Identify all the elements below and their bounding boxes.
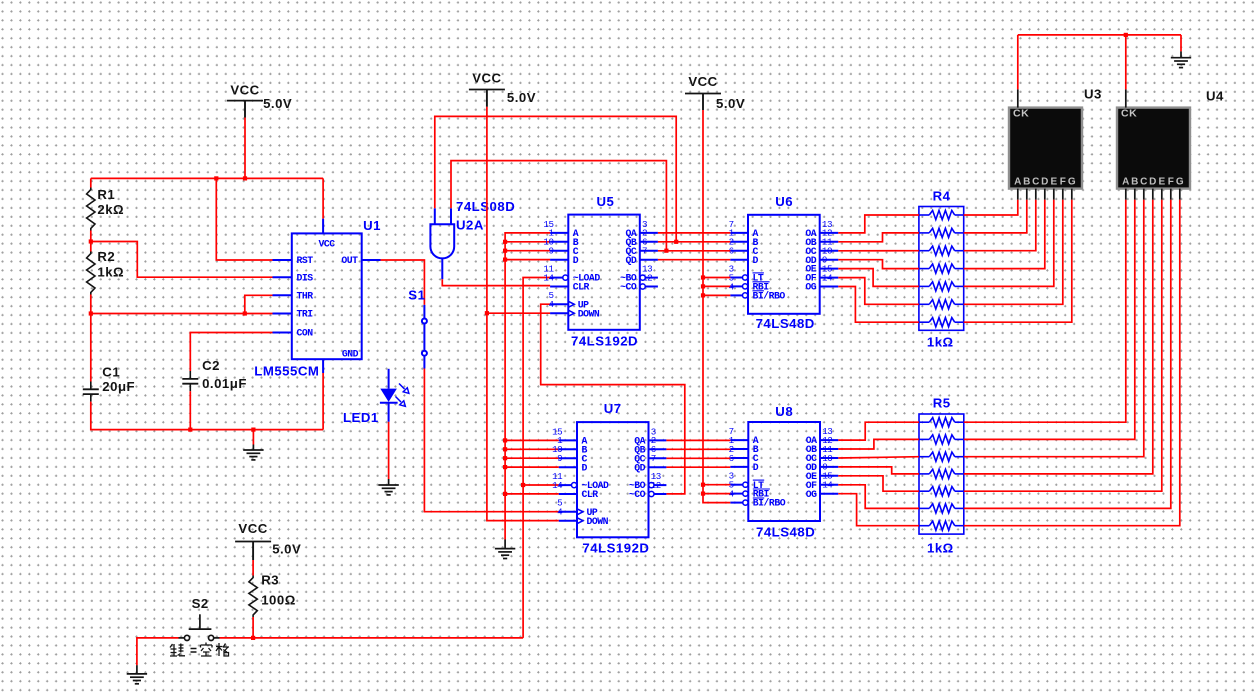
svg-text:CON: CON bbox=[297, 328, 314, 339]
wire gnd rail to U7 B bbox=[505, 448, 559, 450]
op-amp U1 LM555CM timer body bbox=[292, 233, 362, 359]
svg-text:VCC: VCC bbox=[319, 239, 336, 250]
wire U6 OF to R4 row6 bbox=[838, 278, 919, 305]
node gnd-rail U7 B bbox=[503, 447, 507, 451]
node R1/R2 junction bbox=[89, 239, 93, 243]
svg-text:14: 14 bbox=[822, 480, 833, 491]
svg-text:0.01μF: 0.01μF bbox=[202, 376, 247, 391]
wire R4 row1 to U3 A bbox=[964, 200, 1018, 215]
wire S1 to U7 UP bbox=[424, 369, 558, 512]
wire R5 row6 to U4 F bbox=[964, 200, 1171, 509]
wire R5 row5 to U4 E bbox=[964, 200, 1162, 491]
wire VCC1 stem to top rail bbox=[244, 118, 246, 179]
svg-text:C: C bbox=[1140, 177, 1147, 188]
svg-text:OG: OG bbox=[805, 282, 816, 293]
svg-text:VCC: VCC bbox=[238, 521, 267, 536]
svg-text:7: 7 bbox=[651, 453, 656, 464]
svg-text:5.0V: 5.0V bbox=[716, 96, 745, 111]
svg-text:12: 12 bbox=[651, 480, 661, 491]
wire gnd rail to U5 C bbox=[505, 250, 550, 252]
svg-text:D: D bbox=[582, 462, 588, 473]
svg-text:R2: R2 bbox=[97, 249, 115, 264]
svg-text:S1: S1 bbox=[408, 287, 425, 302]
node ground-rail junction bbox=[251, 428, 255, 432]
svg-text:~CO: ~CO bbox=[629, 489, 646, 500]
wire QC feedback rail to gate input B bbox=[451, 161, 666, 251]
node gnd-rail U7 D bbox=[503, 465, 507, 469]
wire TRI row bbox=[91, 313, 273, 315]
wire U6 OG to R4 row7 bbox=[838, 287, 919, 323]
svg-text:1kΩ: 1kΩ bbox=[927, 540, 954, 555]
svg-text:4: 4 bbox=[548, 299, 554, 310]
wire VCC4 to R3 bbox=[252, 560, 254, 576]
svg-text:C: C bbox=[1032, 177, 1039, 188]
wire U8 OG to R5 row7 bbox=[838, 494, 919, 526]
svg-text:OUT: OUT bbox=[341, 255, 358, 266]
svg-text:5.0V: 5.0V bbox=[272, 541, 301, 556]
node gnd-rail U7 C bbox=[503, 456, 507, 460]
wire THR jog bbox=[245, 295, 273, 313]
wire U7 ~CO carry to U5 UP bbox=[541, 304, 685, 494]
ground G1 (555 bottom) bbox=[243, 450, 263, 460]
resistor pack R4 1k bbox=[919, 207, 964, 331]
wire left column to C1 bbox=[90, 314, 92, 382]
svg-text:C1: C1 bbox=[102, 365, 120, 380]
ground G5 (LED1) bbox=[378, 485, 398, 495]
wire R5 row4 to U4 D bbox=[964, 200, 1153, 474]
node gnd-rail U7 CLR bbox=[503, 492, 507, 496]
wire R5 row1 to U4 A bbox=[964, 200, 1126, 422]
svg-text:RST: RST bbox=[297, 255, 314, 266]
wire CON to C2 bbox=[190, 333, 272, 372]
power VCC1 5.0V (left, above U1) bbox=[227, 83, 292, 118]
wire R5 row3 to U4 C bbox=[964, 200, 1144, 457]
resistor R2 1k bbox=[87, 252, 95, 295]
svg-text:1kΩ: 1kΩ bbox=[97, 265, 124, 280]
wire C1 bottom to bottom rail bbox=[91, 402, 323, 430]
wire gnd rail to U7 CLR bbox=[505, 493, 559, 495]
svg-text:A: A bbox=[1014, 177, 1021, 188]
svg-text:74LS48D: 74LS48D bbox=[756, 316, 815, 331]
wire U7 QB to U8 B bbox=[666, 448, 730, 450]
svg-text:DOWN: DOWN bbox=[587, 516, 609, 527]
svg-text:74LS48D: 74LS48D bbox=[756, 525, 815, 540]
svg-text:CLR: CLR bbox=[582, 489, 599, 500]
svg-text:U2A: U2A bbox=[456, 217, 484, 232]
wire gnd rail to U5 D bbox=[505, 259, 550, 261]
power VCC4 5.0V (above R3) bbox=[235, 521, 301, 560]
wire R2 bottom to TRI rail bbox=[90, 295, 92, 314]
wire rail to R1 top bbox=[90, 178, 92, 187]
label key=space caption bbox=[170, 643, 229, 657]
svg-text:GND: GND bbox=[342, 349, 359, 360]
wire U7 QD to U8 D bbox=[666, 466, 730, 468]
svg-text:THR: THR bbox=[297, 291, 314, 302]
svg-text:LM555CM: LM555CM bbox=[254, 364, 319, 379]
svg-text:VCC: VCC bbox=[230, 83, 259, 98]
svg-text:LED1: LED1 bbox=[343, 410, 379, 425]
wire U8 OC to R5 row3 bbox=[838, 457, 919, 458]
capacitor C2 0.01uF bbox=[189, 371, 191, 379]
resistor R3 100ohm bbox=[249, 576, 257, 618]
wire U8 OB to R5 row2 bbox=[838, 439, 919, 449]
svg-text:74LS08D: 74LS08D bbox=[456, 199, 515, 214]
node TRI-left junction bbox=[89, 311, 93, 315]
svg-text:1kΩ: 1kΩ bbox=[927, 334, 954, 349]
node VCC3-rail U6 BI/RBO bbox=[701, 293, 705, 297]
svg-text:R1: R1 bbox=[97, 187, 115, 202]
wire VCC3 rail to U8 LT bbox=[703, 484, 730, 486]
wire R4 row6 to U3 F bbox=[964, 200, 1063, 304]
svg-text:CLR: CLR bbox=[573, 282, 590, 293]
wire rail down to U3 CK bbox=[1017, 35, 1019, 90]
wire R5 row2 to U4 B bbox=[964, 200, 1135, 440]
svg-text:VCC: VCC bbox=[472, 71, 501, 86]
ground G2 (S2) bbox=[127, 674, 147, 684]
AND gate U2A 74LS08D bbox=[430, 224, 454, 258]
svg-text:B: B bbox=[1131, 177, 1138, 188]
capacitor C1 20uF bbox=[90, 382, 92, 390]
wire R5 row7 to U4 G bbox=[964, 200, 1180, 526]
svg-text:C2: C2 bbox=[202, 358, 220, 373]
svg-text:BI/RBO: BI/RBO bbox=[753, 498, 786, 509]
svg-text:F: F bbox=[1060, 177, 1066, 188]
power VCC3 5.0V (above U6) bbox=[685, 74, 745, 111]
wire U6 OE to R4 row5 bbox=[838, 269, 919, 287]
wire VCC rail to U5 DOWN bbox=[487, 312, 550, 314]
svg-text:U8: U8 bbox=[775, 404, 793, 419]
resistor pack R5 1k bbox=[919, 414, 964, 534]
wire U5 QC to U6 C bbox=[658, 250, 730, 252]
svg-text:R3: R3 bbox=[261, 572, 279, 587]
wire U7 QA to U8 A bbox=[666, 439, 730, 441]
node U4 CK junction bbox=[1124, 33, 1128, 37]
wire R4 row3 to U3 C bbox=[964, 200, 1036, 251]
wire S2 right to load rail bbox=[220, 637, 524, 639]
wire LED1 cathode down bbox=[388, 422, 390, 479]
svg-text:U6: U6 bbox=[775, 194, 793, 209]
svg-text:5.0V: 5.0V bbox=[263, 96, 292, 111]
svg-text:R4: R4 bbox=[933, 188, 951, 203]
node gnd-rail U5 C bbox=[503, 249, 507, 253]
wire VCC3 rail to U8 RBI bbox=[703, 493, 730, 495]
wire rail to U1 RST bbox=[216, 178, 272, 260]
svg-text:14: 14 bbox=[822, 272, 833, 283]
svg-text:74LS192D: 74LS192D bbox=[571, 334, 638, 349]
node VCC3-rail U8 RBI bbox=[701, 492, 705, 496]
svg-text:74LS192D: 74LS192D bbox=[582, 541, 649, 556]
node VCC3-rail U8 LT bbox=[701, 483, 705, 487]
LED LED1 bbox=[380, 369, 409, 422]
node R3/S2 junction bbox=[251, 636, 255, 640]
power VCC2 5.0V (above U5) bbox=[469, 71, 536, 107]
svg-text:14: 14 bbox=[543, 272, 554, 283]
svg-text:D: D bbox=[753, 462, 759, 473]
svg-text:9: 9 bbox=[548, 246, 553, 257]
wire S2 left to ground bbox=[137, 638, 179, 665]
wire gnd rail to U7 C bbox=[505, 457, 559, 459]
svg-text:20μF: 20μF bbox=[102, 379, 135, 394]
svg-text:E: E bbox=[1050, 177, 1057, 188]
svg-text:A: A bbox=[1122, 177, 1129, 188]
wire gnd rail to U5 B bbox=[505, 241, 550, 243]
wire S2 to ~LOAD rail bbox=[523, 278, 550, 638]
wire U1 OUT to S1 bbox=[381, 260, 425, 305]
wire CK rail bbox=[1018, 34, 1181, 36]
wire U5 QA to U6 A bbox=[658, 232, 730, 234]
svg-text:9: 9 bbox=[557, 453, 562, 464]
ground G3 (CK rail) bbox=[1171, 58, 1191, 68]
node THR branch junction bbox=[243, 311, 247, 315]
wire rail down to U4 CK bbox=[1125, 35, 1127, 90]
wire node to R2 top bbox=[90, 242, 92, 252]
wire gnd rail to U7 D bbox=[505, 466, 559, 468]
svg-text:OG: OG bbox=[806, 489, 817, 500]
wire VCC3 rail down to LT/RBI pins bbox=[703, 110, 730, 503]
wire rail to U1 VCC pin bbox=[322, 178, 324, 218]
node U5 DOWN junction bbox=[485, 311, 489, 315]
wire U8 OF to R5 row6 bbox=[838, 485, 919, 509]
wire QB feedback rail to gate input A bbox=[435, 116, 676, 241]
resistor R1 2k bbox=[87, 188, 95, 231]
svg-text:S2: S2 bbox=[192, 596, 209, 611]
wire U6 OD to R4 row4 bbox=[838, 260, 919, 269]
wire rail to ground G3 bbox=[1180, 35, 1182, 52]
svg-text:DOWN: DOWN bbox=[578, 308, 600, 319]
svg-text:U3: U3 bbox=[1084, 87, 1102, 102]
svg-text:G: G bbox=[1176, 177, 1184, 188]
wire node to U1 DIS bbox=[91, 242, 273, 278]
svg-text:E: E bbox=[1158, 177, 1165, 188]
svg-text:BI/RBO: BI/RBO bbox=[753, 291, 786, 302]
svg-text:F: F bbox=[1168, 177, 1174, 188]
wire U6 OA to R4 row1 bbox=[838, 215, 919, 233]
wire R1 bottom to node bbox=[90, 231, 92, 242]
wire U1 GND pin down bbox=[322, 373, 324, 430]
wire U8 OE to R5 row5 bbox=[838, 476, 919, 491]
svg-text:D: D bbox=[573, 255, 579, 266]
wire rail to U7 ~LOAD bbox=[523, 484, 559, 486]
svg-text:QD: QD bbox=[634, 462, 645, 473]
7-segment display U4 bbox=[1117, 108, 1190, 189]
svg-text:VCC: VCC bbox=[688, 74, 717, 89]
decoder U6 74LS48D body bbox=[748, 215, 820, 314]
svg-text:D: D bbox=[1149, 177, 1156, 188]
switch S1 bbox=[422, 305, 427, 369]
wire VCC3 rail to U6 RBI bbox=[703, 285, 730, 287]
node VCC3-rail U6 LT bbox=[701, 275, 705, 279]
svg-text:D: D bbox=[1041, 177, 1048, 188]
svg-text:CK: CK bbox=[1013, 108, 1029, 120]
wire ground rail (U5/U7 data inputs) bbox=[505, 233, 550, 540]
node VCC3-rail U6 RBI bbox=[701, 284, 705, 288]
wire VCC3 rail to U6 BI/RBO bbox=[703, 294, 730, 296]
svg-text:4: 4 bbox=[557, 507, 563, 518]
wire C2 bottom to bottom rail bbox=[189, 391, 191, 429]
wire U7 QC to U8 C bbox=[666, 457, 730, 459]
wire R4 row4 to U3 D bbox=[964, 200, 1045, 269]
node C2-bottom junction bbox=[188, 428, 192, 432]
svg-text:D: D bbox=[753, 255, 759, 266]
svg-text:U7: U7 bbox=[604, 401, 622, 416]
node gnd-rail U7 A bbox=[503, 438, 507, 442]
wire U8 OD to R5 row4 bbox=[838, 467, 919, 474]
ground G4 (counter inputs) bbox=[495, 549, 515, 559]
wire R3 to S2 node bbox=[252, 617, 254, 638]
svg-text:100Ω: 100Ω bbox=[261, 593, 296, 608]
node QC junction bbox=[664, 249, 668, 253]
switch S2 (pushbutton) bbox=[179, 614, 220, 640]
wire U2A out to U5 CLR bbox=[442, 279, 550, 285]
svg-text:U5: U5 bbox=[597, 194, 615, 209]
wire VCC2 to DOWN pins rail bbox=[487, 107, 559, 521]
svg-text:7: 7 bbox=[642, 246, 647, 257]
wire top-left rail bbox=[91, 177, 323, 179]
decoder U8 74LS48D body bbox=[748, 422, 820, 521]
wire U6 OB to R4 row2 bbox=[838, 233, 919, 242]
svg-text:U4: U4 bbox=[1206, 89, 1224, 104]
svg-text:G: G bbox=[1068, 177, 1076, 188]
wire gnd rail to U7 A bbox=[505, 439, 559, 441]
svg-text:14: 14 bbox=[552, 480, 563, 491]
node gnd-rail U5 D bbox=[503, 258, 507, 262]
wire U6 OC to R4 row3 bbox=[838, 250, 919, 252]
node VCC1-rail junction bbox=[243, 176, 247, 180]
7-segment display U3 bbox=[1009, 108, 1082, 189]
wire U5 QD to U6 D bbox=[658, 259, 730, 261]
wire R4 row5 to U3 E bbox=[964, 200, 1054, 287]
svg-text:~CO: ~CO bbox=[620, 282, 637, 293]
svg-text:QD: QD bbox=[626, 255, 637, 266]
svg-text:CK: CK bbox=[1121, 108, 1137, 120]
counter U7 74LS192D body bbox=[577, 422, 649, 537]
node U7 ~LOAD junction bbox=[521, 483, 525, 487]
svg-text:B: B bbox=[1023, 177, 1030, 188]
svg-text:R5: R5 bbox=[933, 395, 951, 410]
wire bottom rail to ground bbox=[252, 430, 254, 445]
svg-text:12: 12 bbox=[642, 272, 652, 283]
svg-text:DIS: DIS bbox=[297, 272, 314, 283]
svg-text:U1: U1 bbox=[363, 218, 381, 233]
svg-text:5.0V: 5.0V bbox=[507, 90, 536, 105]
counter U5 74LS192D body bbox=[568, 215, 640, 330]
node QB junction bbox=[674, 240, 678, 244]
node gnd-rail U5 B bbox=[503, 240, 507, 244]
wire R4 row7 to U3 G bbox=[964, 200, 1072, 322]
svg-text:2kΩ: 2kΩ bbox=[97, 202, 124, 217]
wire VCC3 rail to U6 LT bbox=[703, 277, 730, 279]
wire R4 row2 to U3 B bbox=[964, 200, 1027, 233]
wire U5 QB to U6 B bbox=[658, 241, 730, 243]
node RST branch junction bbox=[214, 176, 218, 180]
wire U8 OA to R5 row1 bbox=[838, 422, 919, 440]
svg-text:TRI: TRI bbox=[297, 309, 314, 320]
